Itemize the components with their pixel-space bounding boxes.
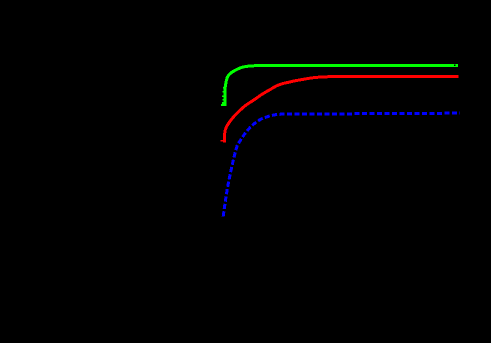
green line pixel gap artifact	[454, 65, 455, 66]
green curve notch marks	[222, 87, 225, 104]
red curve bottom tick	[221, 140, 224, 142]
curve blue (bottom, dashed)	[223, 113, 460, 216]
curve red (middle, solid)	[224, 76, 458, 142]
blue curve bottom tick	[222, 214, 224, 216]
green curve foot tick	[221, 104, 226, 106]
curve green (top, solid)	[225, 66, 458, 106]
